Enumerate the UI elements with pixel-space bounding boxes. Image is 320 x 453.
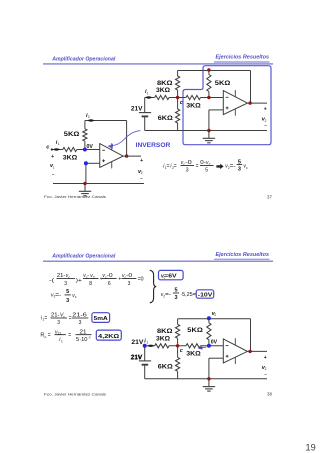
svg-text:3: 3	[66, 298, 69, 304]
svg-text:8: 8	[89, 281, 92, 287]
svg-text:8KΩ: 8KΩ	[157, 80, 173, 87]
svg-text:2: 2	[214, 313, 216, 317]
svg-text:3: 3	[128, 281, 131, 287]
svg-text:3: 3	[64, 281, 67, 287]
svg-text:0V: 0V	[211, 339, 218, 345]
svg-text:6KΩ: 6KΩ	[158, 363, 173, 370]
svg-text:21V: 21V	[131, 354, 143, 361]
svg-text:Amplificador Operacional: Amplificador Operacional	[51, 254, 115, 260]
svg-text:3: 3	[186, 167, 189, 173]
svg-text:+: +	[140, 158, 143, 164]
svg-text:3KΩ: 3KΩ	[186, 351, 201, 358]
svg-text:3: 3	[238, 167, 241, 173]
svg-text:3KΩ: 3KΩ	[156, 336, 170, 343]
svg-text:c: c	[46, 145, 50, 151]
svg-text:1: 1	[146, 341, 148, 345]
svg-text:c: c	[75, 295, 77, 299]
svg-text:c: c	[180, 348, 183, 354]
svg-text:=0: =0	[138, 277, 144, 283]
svg-text:21V: 21V	[131, 339, 144, 346]
svg-text:=-: =-	[55, 292, 61, 298]
svg-text:19: 19	[306, 442, 316, 452]
svg-text:5: 5	[205, 167, 208, 173]
svg-text:=-: =-	[165, 292, 171, 298]
svg-text:-10V: -10V	[198, 292, 213, 298]
svg-text:5KΩ: 5KΩ	[215, 80, 231, 87]
svg-text:8KΩ: 8KΩ	[157, 328, 173, 335]
svg-text:=: =	[69, 315, 72, 321]
svg-text:5: 5	[174, 287, 177, 293]
svg-text:0V: 0V	[87, 144, 94, 150]
svg-text:)+: )+	[76, 278, 82, 284]
svg-text:5KΩ: 5KΩ	[187, 327, 203, 334]
svg-text:c: c	[53, 166, 55, 170]
svg-text:5mA: 5mA	[94, 316, 108, 322]
svg-text:3KΩ: 3KΩ	[156, 87, 170, 94]
svg-text:2: 2	[88, 115, 90, 119]
svg-text:3KΩ: 3KΩ	[186, 102, 201, 109]
svg-text:5KΩ: 5KΩ	[64, 131, 80, 138]
svg-text:–: –	[264, 123, 267, 128]
svg-text:1: 1	[58, 142, 60, 146]
svg-text:Ejercicios Resueltos: Ejercicios Resueltos	[216, 54, 270, 60]
svg-text:in: in	[44, 335, 47, 339]
svg-text:=: =	[68, 333, 71, 339]
svg-text:1: 1	[147, 91, 149, 95]
svg-text:-(: -(	[49, 278, 54, 284]
svg-text:5: 5	[66, 289, 69, 295]
svg-text:38: 38	[267, 392, 272, 397]
svg-text:3KΩ: 3KΩ	[63, 154, 78, 161]
svg-text:2: 2	[141, 171, 143, 175]
svg-text:6KΩ: 6KΩ	[158, 115, 173, 122]
svg-text:5·10: 5·10	[76, 337, 88, 343]
svg-text:c: c	[246, 166, 248, 170]
svg-text:21V: 21V	[131, 106, 143, 113]
svg-text:=-: =-	[230, 164, 236, 170]
svg-text:+: +	[51, 154, 54, 160]
svg-text:=: =	[174, 164, 177, 170]
svg-text:4,2KΩ: 4,2KΩ	[98, 334, 119, 340]
svg-text:·5,25=: ·5,25=	[180, 292, 196, 298]
svg-text:=: =	[167, 164, 170, 170]
svg-text:=6V: =6V	[164, 273, 177, 279]
svg-text:–: –	[264, 371, 267, 376]
svg-text:+: +	[264, 107, 267, 113]
svg-text:3: 3	[57, 320, 60, 326]
svg-text:+: +	[264, 355, 267, 361]
svg-text:6: 6	[108, 281, 111, 287]
svg-text:–: –	[52, 172, 55, 177]
svg-text:=: =	[44, 315, 47, 321]
svg-text:-3: -3	[88, 336, 91, 340]
svg-text:3: 3	[79, 320, 82, 326]
svg-text:=: =	[48, 333, 51, 339]
svg-text:INVERSOR: INVERSOR	[136, 142, 171, 149]
svg-text:+: +	[118, 277, 121, 283]
svg-text:37: 37	[267, 195, 272, 200]
svg-text:Amplificador Operacional: Amplificador Operacional	[51, 56, 115, 62]
svg-text:1: 1	[61, 339, 63, 343]
svg-text:3: 3	[174, 295, 177, 301]
svg-text:–: –	[140, 176, 143, 181]
svg-text:c: c	[180, 100, 183, 106]
svg-text:Fco. Javier Hernández Canals: Fco. Javier Hernández Canals	[44, 194, 106, 199]
svg-text:=: =	[196, 164, 199, 170]
svg-text:Fco. Javier Hernández Canals: Fco. Javier Hernández Canals	[44, 391, 106, 396]
svg-text:Ejercicios Resueltos: Ejercicios Resueltos	[216, 252, 270, 258]
